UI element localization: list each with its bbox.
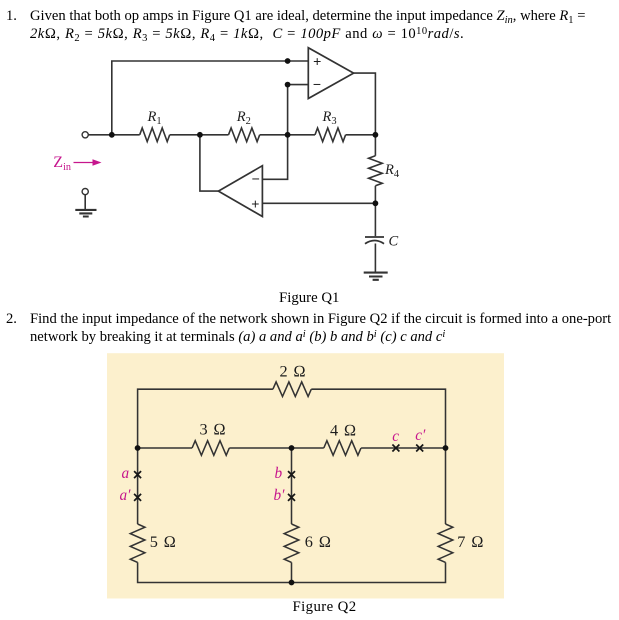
- node C junction dot: [285, 132, 291, 138]
- svg-text:R2: R2: [236, 109, 251, 127]
- wire left column: [137, 448, 139, 524]
- resistor 3ohm: [192, 441, 229, 456]
- figure background panel: [107, 353, 504, 598]
- Figure Q2 schematic: [0, 345, 619, 605]
- input lower terminal circle: [82, 189, 88, 195]
- svg-text:2 Ω: 2 Ω: [280, 362, 307, 381]
- svg-text:−: −: [252, 171, 260, 187]
- problem 1 text: [30, 7, 585, 43]
- resistor R2: [229, 128, 260, 142]
- wire R3 to node D: [346, 134, 376, 136]
- svg-text:6 Ω: 6 Ω: [305, 532, 332, 551]
- wire node A to R1: [112, 134, 140, 136]
- terminal mark c: [392, 445, 399, 452]
- svg-text:+: +: [313, 53, 321, 69]
- resistor R3: [315, 128, 346, 142]
- wire node E to capacitor C: [374, 203, 376, 236]
- wire capacitor to ground: [374, 244, 376, 272]
- wire middle column: [291, 448, 293, 524]
- svg-text:4 Ω: 4 Ω: [330, 421, 357, 440]
- wire R2 to node C: [260, 134, 288, 136]
- wire R4 to node E: [374, 186, 376, 204]
- caption Figure Q1: [279, 290, 339, 307]
- caption Figure Q2: [293, 599, 357, 616]
- op-amp U1 triangle: [308, 48, 353, 99]
- svg-text:b′: b′: [274, 487, 286, 504]
- node B junction dot: [197, 132, 203, 138]
- resistor 7ohm: [438, 524, 453, 562]
- wire U1 output to node D: [354, 73, 376, 135]
- wire middle row left: [138, 447, 193, 449]
- resistor R1: [140, 128, 170, 142]
- wire 3ohm to node b: [229, 447, 291, 449]
- ground G1: [364, 273, 388, 280]
- junction dot node b: [289, 445, 295, 451]
- wire 5ohm to bottom rail: [138, 562, 292, 582]
- problem 2 text: [30, 310, 611, 346]
- Figure Q1 schematic: [0, 0, 619, 300]
- svg-text:3 Ω: 3 Ω: [200, 420, 227, 439]
- svg-text:C: C: [389, 234, 399, 250]
- wire 6ohm to bottom rail: [291, 562, 293, 582]
- wire top rail: [112, 61, 308, 135]
- svg-text:c′: c′: [415, 427, 426, 444]
- wire R1 to node B: [170, 134, 200, 136]
- ground G2: [75, 210, 96, 217]
- junction dot right node: [443, 445, 449, 451]
- resistor 5ohm: [130, 524, 145, 562]
- svg-text:R1: R1: [147, 109, 162, 127]
- resistor 6ohm: [284, 524, 299, 562]
- junction dot bottom node: [289, 580, 295, 586]
- op-amp U2 triangle: [218, 166, 262, 217]
- junction dot on plus rail: [285, 58, 291, 64]
- wire terminal to ground: [84, 195, 86, 210]
- node E junction dot: [373, 200, 379, 206]
- wire top rail left: [138, 389, 273, 448]
- svg-text:−: −: [313, 76, 321, 92]
- resistor 2ohm: [273, 382, 311, 397]
- arrow Zin: [74, 162, 95, 164]
- resistor R4: [369, 156, 383, 186]
- wire node D to R4: [374, 135, 376, 156]
- wire U1 minus input from node C: [288, 85, 309, 135]
- wire bottom rail right: [292, 562, 446, 582]
- svg-text:R4: R4: [384, 162, 400, 180]
- svg-text:a: a: [122, 465, 130, 482]
- wire 4ohm to right node: [361, 447, 445, 449]
- input terminal circle: [82, 132, 88, 138]
- resistor 4ohm: [324, 441, 361, 456]
- wire U2 minus input from node C: [262, 135, 287, 180]
- terminal mark b-prime: [288, 494, 295, 501]
- svg-text:c: c: [392, 428, 399, 445]
- svg-text:a′: a′: [120, 487, 132, 504]
- terminal mark a-prime: [134, 494, 141, 501]
- terminal mark a: [134, 471, 141, 478]
- capacitor C: [365, 237, 384, 244]
- wire top rail right: [311, 389, 445, 448]
- wire node b to 4ohm: [292, 447, 324, 449]
- svg-text:5 Ω: 5 Ω: [150, 532, 177, 551]
- svg-text:+: +: [251, 195, 259, 211]
- wire input to node A: [88, 134, 112, 136]
- wire right column: [445, 448, 447, 524]
- wire node C to R3: [288, 134, 315, 136]
- terminal mark b: [288, 471, 295, 478]
- svg-text:b: b: [275, 465, 283, 482]
- terminal mark c-prime: [416, 445, 423, 452]
- junction dot at U1 minus input: [285, 82, 291, 88]
- svg-text:7 Ω: 7 Ω: [457, 532, 484, 551]
- svg-text:Zin: Zin: [53, 154, 71, 173]
- wire U2 plus input from node E: [262, 202, 375, 204]
- wire node B to R2: [200, 134, 229, 136]
- node A junction dot: [109, 132, 115, 138]
- junction dot left node: [135, 445, 141, 451]
- wire U2 output to node B: [200, 135, 219, 191]
- node D junction dot: [373, 132, 379, 138]
- svg-text:R3: R3: [322, 109, 337, 127]
